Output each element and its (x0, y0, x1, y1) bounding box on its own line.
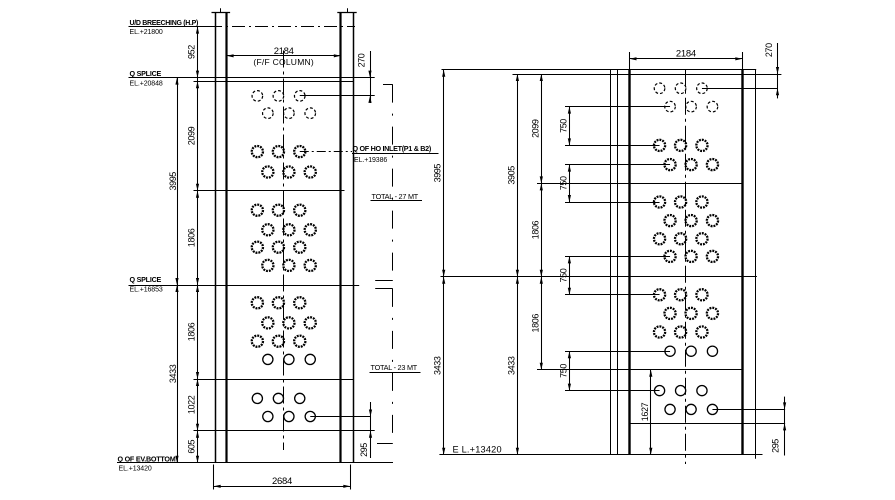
left column: top cap right flange (337, 8, 356, 12)
right dim chain C line (541, 74, 543, 370)
right dim text 3905 (506, 166, 516, 185)
svg-text:U/D BREECHING (H.P): U/D BREECHING (H.P) (130, 20, 199, 27)
dim 295 left text (359, 443, 369, 457)
bolt row L4 (bold) (262, 166, 316, 177)
right dim 2184 line (630, 58, 743, 60)
division line 2 (194, 379, 354, 381)
right dim chain A line (443, 70, 445, 455)
left column: left flange inner line (web face) (225, 12, 227, 462)
bolt row L3 (bold) (252, 146, 306, 157)
right dim text 1806 lower (530, 314, 540, 333)
bolt row L8 (bold) (262, 260, 316, 271)
bolt row L10 (bold) (262, 317, 316, 328)
svg-text:EL.+20848: EL.+20848 (130, 80, 163, 87)
text (F/F COLUMN) (253, 57, 314, 67)
right column: left plate line 1 (610, 70, 612, 455)
svg-text:2684: 2684 (272, 476, 292, 487)
leader R5 (565, 202, 660, 204)
bolt row L9 (bold) (252, 297, 306, 308)
underline TOTAL 27 (371, 200, 423, 202)
text EL.+13420 (119, 466, 152, 473)
right column: right flange outer line (755, 70, 757, 459)
leader R8 (565, 256, 670, 258)
bolt row R11 (bold) (654, 326, 708, 337)
level line EL.+21800 (solid under label) (129, 26, 210, 28)
dimension 2184 line (227, 55, 341, 57)
bolt row L1 (thin dashed) (252, 91, 305, 102)
svg-text:3995: 3995 (168, 172, 178, 191)
svg-text:2099: 2099 (187, 126, 197, 145)
svg-text:2099: 2099 (530, 119, 540, 138)
dim text 2099 left (187, 126, 197, 145)
dim text 3433 left (168, 364, 178, 383)
bolt row L13 (thin solid) (252, 393, 305, 403)
right dim 750 #4 (558, 351, 571, 390)
svg-text:Q OF HO INLET(P1 & B2): Q OF HO INLET(P1 & B2) (353, 144, 432, 153)
bolt row R9 (bold) (654, 289, 708, 300)
dim 270 left text (357, 53, 367, 67)
leader R1 right (702, 88, 778, 90)
right top line 2 (513, 74, 782, 76)
right column: left plate line 2 (617, 70, 619, 455)
right level line EL.+13420 (439, 454, 762, 456)
bolt row R13 (thin solid) (654, 386, 707, 396)
svg-text:270: 270 (764, 43, 774, 57)
leader R12 (565, 351, 670, 353)
svg-text:295: 295 (359, 443, 369, 457)
level line splice EL.+16853 (129, 285, 360, 287)
svg-text:1627: 1627 (640, 402, 650, 421)
right division line 2 (441, 276, 757, 278)
svg-text:1022: 1022 (187, 395, 197, 414)
svg-text:750: 750 (558, 268, 568, 282)
division line 1 (194, 190, 345, 192)
bolt row R8 (bold) (664, 251, 718, 262)
bolt row R2 (thin dashed) (665, 101, 718, 112)
bolt row L7 (bold) (252, 242, 306, 253)
dim chain A line (177, 78, 179, 463)
chain A arrows (175, 78, 178, 463)
leader R13 (565, 390, 660, 392)
right dim 2184 arrows (630, 57, 743, 60)
leader R9 (565, 294, 660, 296)
svg-text:EL.+19386: EL.+19386 (354, 157, 387, 164)
right dim text 3995 (433, 164, 443, 183)
leader dash-dot HO inlet (300, 151, 352, 153)
svg-text:3905: 3905 (506, 166, 516, 185)
bolt row L11 (bold) (252, 336, 306, 347)
bolt row R6 (bold) (664, 215, 718, 226)
right dim text 2099 (530, 119, 540, 138)
bolt row R4 (bold) (664, 159, 718, 170)
svg-text:1806: 1806 (187, 228, 197, 247)
svg-text:EL.+13420: EL.+13420 (119, 466, 152, 473)
bolt row L2 (thin dashed) (263, 108, 316, 119)
chain B arrows (196, 27, 199, 463)
right division line 1 (537, 183, 742, 185)
text EL.+19386 (354, 157, 387, 164)
svg-text:Q OF EV.BOTTOM: Q OF EV.BOTTOM (118, 454, 176, 463)
panel top line below splice (194, 81, 354, 83)
dim chain B line (197, 27, 199, 463)
svg-text:EL.+21800: EL.+21800 (130, 29, 163, 36)
bolt row R3 (bold) (654, 140, 708, 151)
right dim 750 #3 (558, 256, 571, 294)
right column: right web face (thick) (741, 70, 743, 455)
svg-text:3433: 3433 (506, 356, 516, 375)
bolt row R1 (thin dashed) (654, 83, 707, 94)
leader from row L14 (310, 416, 370, 418)
svg-text:E L.+13420: E L.+13420 (453, 445, 502, 455)
svg-text:2184: 2184 (676, 48, 696, 59)
dim text 605 (187, 439, 197, 453)
right chain C arrows (540, 74, 543, 370)
svg-text:270: 270 (357, 53, 367, 67)
right dim 295 text (770, 439, 780, 453)
bolt row R10 (bold) (664, 308, 718, 319)
text EL.+20848 (130, 80, 163, 87)
right division line 3 (537, 369, 742, 371)
right dim text 1806 upper (530, 220, 540, 239)
leader R14 right (712, 409, 785, 411)
svg-text:1806: 1806 (187, 322, 197, 341)
dimension 2184 arrows (227, 54, 341, 57)
bolt row L14 (thin solid) (263, 411, 316, 421)
leader R3 (565, 145, 660, 147)
bolt row R12 (thin solid) (665, 346, 718, 356)
label C OF EV.BOTTOM (118, 454, 176, 463)
text TOTAL - 23 MT (371, 363, 418, 372)
underline HO inlet label (352, 153, 439, 155)
right column: left web face (thick) (628, 70, 630, 455)
dim text 1022 (187, 395, 197, 414)
dimension 2184 text (274, 46, 294, 57)
right dim 2184 ext lines (630, 52, 743, 70)
leader from row L1 (300, 95, 375, 97)
right dim 750 #1 (558, 107, 571, 146)
label C OF HO INLET (353, 144, 432, 153)
right dim chain B line (517, 74, 519, 455)
leader R4 (565, 164, 670, 166)
svg-text:Q SPLICE: Q SPLICE (130, 69, 162, 78)
svg-text:295: 295 (770, 439, 780, 453)
svg-text:3433: 3433 (433, 356, 443, 375)
label C SPLICE (mid) (130, 275, 162, 284)
left column: right flange inner line (web face) (339, 12, 341, 462)
right top line (442, 69, 757, 71)
dimension 2684 arrows (214, 485, 351, 488)
dim text 952 (187, 45, 197, 59)
right dim 270 text (764, 43, 774, 57)
text EL.+16853 (130, 287, 163, 294)
level line splice EL.+20848 (129, 77, 375, 79)
right dim 270 line+arrows (776, 43, 779, 98)
underline TOTAL 23 (370, 372, 421, 374)
label U/D BREECHING (H.P) (130, 20, 199, 27)
right column centre line (685, 70, 687, 464)
right dim text 3433 a (433, 356, 443, 375)
text EL.+21800 (130, 29, 163, 36)
svg-text:EL.+16853: EL.+16853 (130, 287, 163, 294)
dimension 2684 line (214, 486, 351, 488)
svg-text:1806: 1806 (530, 314, 540, 333)
svg-text:1806: 1806 (530, 220, 540, 239)
text TOTAL - 27 MT (372, 192, 419, 201)
bolt row R7 (bold) (654, 233, 708, 244)
svg-text:3433: 3433 (168, 364, 178, 383)
dim text 3995 left (168, 172, 178, 191)
level line EL.+21800 (dash-dot) (209, 26, 355, 28)
svg-text:750: 750 (558, 364, 568, 378)
dim text 1806 left upper (187, 228, 197, 247)
bolt row R5 (bold) (654, 196, 708, 207)
bolt row R14 (thin solid) (665, 404, 718, 414)
right dim 295 line+arrows (783, 397, 786, 456)
left column vertical centre line (283, 51, 285, 451)
right chain A arrows (442, 70, 445, 455)
dim text 1806 left lower (187, 322, 197, 341)
right dim 2184 text (676, 48, 696, 59)
svg-text:3995: 3995 (433, 164, 443, 183)
weight bracket 2 (375, 289, 393, 444)
svg-text:952: 952 (187, 45, 197, 59)
text E L.+13420 (453, 445, 502, 455)
right bottom panel line (630, 423, 786, 425)
svg-text:TOTAL - 23 MT: TOTAL - 23 MT (371, 363, 418, 372)
right dim text 1627 (640, 402, 650, 421)
division line 3 (194, 430, 375, 432)
bolt row L5 (bold) (252, 205, 306, 216)
right dim text 3433 b (506, 356, 516, 375)
svg-text:TOTAL - 27 MT: TOTAL - 27 MT (372, 192, 419, 201)
bolt row L6 (bold) (262, 224, 316, 235)
dimension 2684 text (272, 476, 292, 487)
svg-text:750: 750 (558, 176, 568, 190)
right chain B arrows (516, 74, 519, 455)
left column: top cap left flange (212, 8, 231, 12)
right dim 1627 line (649, 370, 652, 455)
svg-text:Q SPLICE: Q SPLICE (130, 275, 162, 284)
left column: left flange outer line (215, 12, 217, 462)
left column: right flange outer line (353, 12, 355, 462)
2684 extension lines (214, 465, 351, 490)
level line EL.+13420 bottom (117, 462, 393, 464)
label C SPLICE (top) (130, 69, 162, 78)
svg-text:605: 605 (187, 439, 197, 453)
dim 295 left line+arrows (369, 402, 372, 458)
leader R2 (565, 106, 670, 108)
dim 270 left line+arrows (368, 51, 371, 103)
svg-text:(F/F COLUMN): (F/F COLUMN) (253, 57, 314, 67)
right dim 750 #2 (558, 165, 571, 202)
svg-text:750: 750 (558, 119, 568, 133)
weight bracket 1 (375, 85, 393, 281)
bolt row L12 (thin solid) (263, 354, 316, 364)
